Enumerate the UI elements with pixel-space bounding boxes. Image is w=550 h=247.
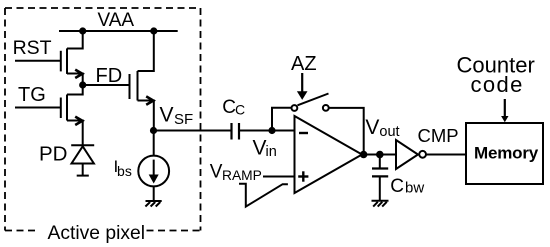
node VAA-SF junction	[150, 27, 157, 34]
arrow on RST source	[75, 70, 82, 78]
wire Vin to comparator minus input	[272, 130, 295, 132]
ground under Ibs	[145, 201, 161, 207]
svg-text:VAA: VAA	[98, 10, 135, 31]
arrow on TG source	[75, 117, 82, 125]
wire FD to SF gate	[83, 84, 130, 86]
svg-text:CMP: CMP	[418, 125, 459, 146]
ramp waveform	[239, 184, 288, 207]
svg-text:TG: TG	[18, 84, 46, 106]
ground under Cbw	[372, 201, 389, 207]
wire feedback right from switch to output	[329, 108, 364, 155]
transistor SF source follower	[130, 31, 154, 131]
svg-text:code: code	[471, 72, 524, 97]
wire CC to Vin node	[239, 130, 272, 132]
node Vin	[268, 127, 275, 134]
switch AZ	[292, 105, 298, 111]
wire current source to ground	[153, 186, 155, 201]
svg-text:AZ: AZ	[291, 53, 317, 75]
arrow AZ pointing to switch	[301, 73, 303, 93]
wire VRAMP to plus input	[263, 176, 295, 178]
node VSF	[150, 127, 157, 134]
transistor RST	[15, 31, 83, 85]
svg-text:Cbw: Cbw	[390, 176, 424, 197]
svg-text:PD: PD	[39, 143, 67, 166]
op-amp comparator	[295, 116, 363, 193]
arrow counter code to memory	[504, 99, 506, 117]
svg-text:CC: CC	[222, 97, 245, 118]
node FD	[79, 81, 86, 88]
current source Ibs	[138, 156, 169, 187]
capacitor CC	[232, 123, 240, 140]
svg-text:Ibs: Ibs	[114, 157, 132, 179]
node VAA-RST junction	[79, 27, 86, 34]
buffer gate	[396, 140, 418, 169]
node Vout at apex	[360, 151, 368, 159]
node Cbw tap	[376, 151, 384, 159]
wire output	[363, 154, 397, 156]
svg-text:VRAMP: VRAMP	[210, 162, 262, 184]
wire VSF to CC	[154, 130, 232, 132]
svg-text:Vin: Vin	[253, 137, 277, 161]
arrow on SF source	[146, 96, 153, 104]
wire VAA rail	[59, 30, 178, 32]
plus sign	[298, 171, 308, 181]
svg-text:Active pixel: Active pixel	[48, 223, 146, 244]
minus sign	[299, 132, 308, 134]
wire VSF down to current source	[153, 131, 155, 156]
wire CMP to memory	[426, 154, 466, 156]
transistor TG	[15, 85, 83, 145]
wire feedback left up to AZ switch	[272, 108, 291, 131]
svg-text:Memory: Memory	[474, 144, 539, 163]
memory box	[466, 123, 543, 184]
capacitor Cbw	[372, 155, 388, 201]
svg-text:RST: RST	[13, 37, 52, 59]
svg-text:FD: FD	[96, 65, 123, 87]
svg-text:Vout: Vout	[365, 116, 399, 140]
active pixel dashed boundary	[5, 8, 201, 231]
photodiode PD	[71, 145, 94, 175]
svg-text:VSF: VSF	[160, 104, 194, 129]
